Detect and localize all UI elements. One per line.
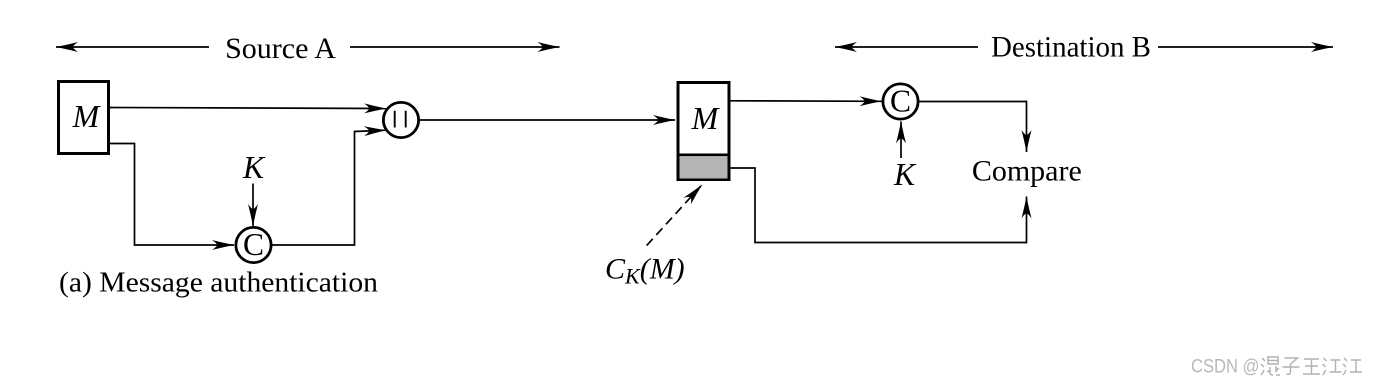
wire MAC section to compare [731, 168, 1027, 243]
hun [1261, 357, 1280, 375]
arrow K into C (source) [252, 184, 254, 227]
header Source A right arrow [350, 46, 560, 48]
MAC function circle C (destination) [883, 84, 918, 119]
svg-text:C: C [243, 227, 264, 262]
zi [1283, 358, 1300, 374]
svg-text:CK(M): CK(M) [605, 253, 685, 289]
MAC gray section [680, 156, 728, 178]
svg-text:K: K [893, 157, 917, 192]
wire concat to destination M [420, 119, 676, 121]
svg-text:Compare: Compare [972, 155, 1082, 188]
wire source M down to C function [110, 144, 234, 246]
svg-text:M: M [691, 100, 721, 136]
source message box M [59, 82, 109, 154]
wire destination C to compare [919, 102, 1027, 153]
svg-text:K: K [242, 150, 266, 185]
jiang 2 [1343, 358, 1362, 375]
divider line [677, 154, 731, 157]
header Destination B left arrow [835, 46, 978, 48]
svg-text:Destination B: Destination B [991, 31, 1151, 64]
svg-text:M: M [72, 98, 102, 134]
wire C output up to concat [272, 130, 386, 245]
svg-text:CSDN @: CSDN @ [1191, 356, 1260, 378]
arrow K into C (destination) [900, 122, 902, 159]
watermark CJK glyphs [1261, 357, 1362, 375]
concat bars [395, 111, 406, 128]
jiang 1 [1323, 358, 1342, 375]
destination message box [678, 83, 729, 180]
svg-text:Source A: Source A [225, 32, 336, 65]
header Destination B right arrow [1158, 46, 1333, 48]
svg-text:(a) Message authentication: (a) Message authentication [59, 266, 379, 298]
header Source A left arrow [56, 46, 209, 48]
dashed arrow to MAC section [647, 185, 702, 246]
svg-text:C: C [890, 84, 911, 119]
wang [1303, 359, 1320, 374]
wire source M to concat [110, 108, 386, 109]
wire destination M to C [731, 100, 882, 103]
concatenation circle [383, 102, 418, 137]
MAC function circle C (source) [236, 227, 271, 262]
